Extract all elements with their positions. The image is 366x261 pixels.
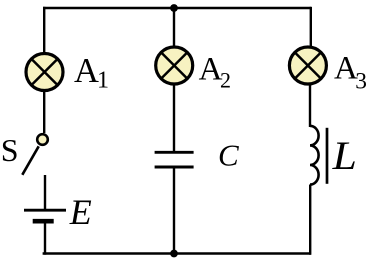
svg-text:A: A bbox=[74, 52, 99, 90]
svg-text:1: 1 bbox=[97, 68, 109, 94]
svg-text:L: L bbox=[332, 135, 357, 179]
svg-text:C: C bbox=[218, 138, 239, 173]
svg-text:S: S bbox=[1, 132, 19, 168]
svg-text:3: 3 bbox=[355, 68, 366, 94]
svg-text:E: E bbox=[69, 192, 92, 232]
svg-text:A: A bbox=[199, 52, 223, 88]
svg-text:2: 2 bbox=[220, 67, 231, 92]
